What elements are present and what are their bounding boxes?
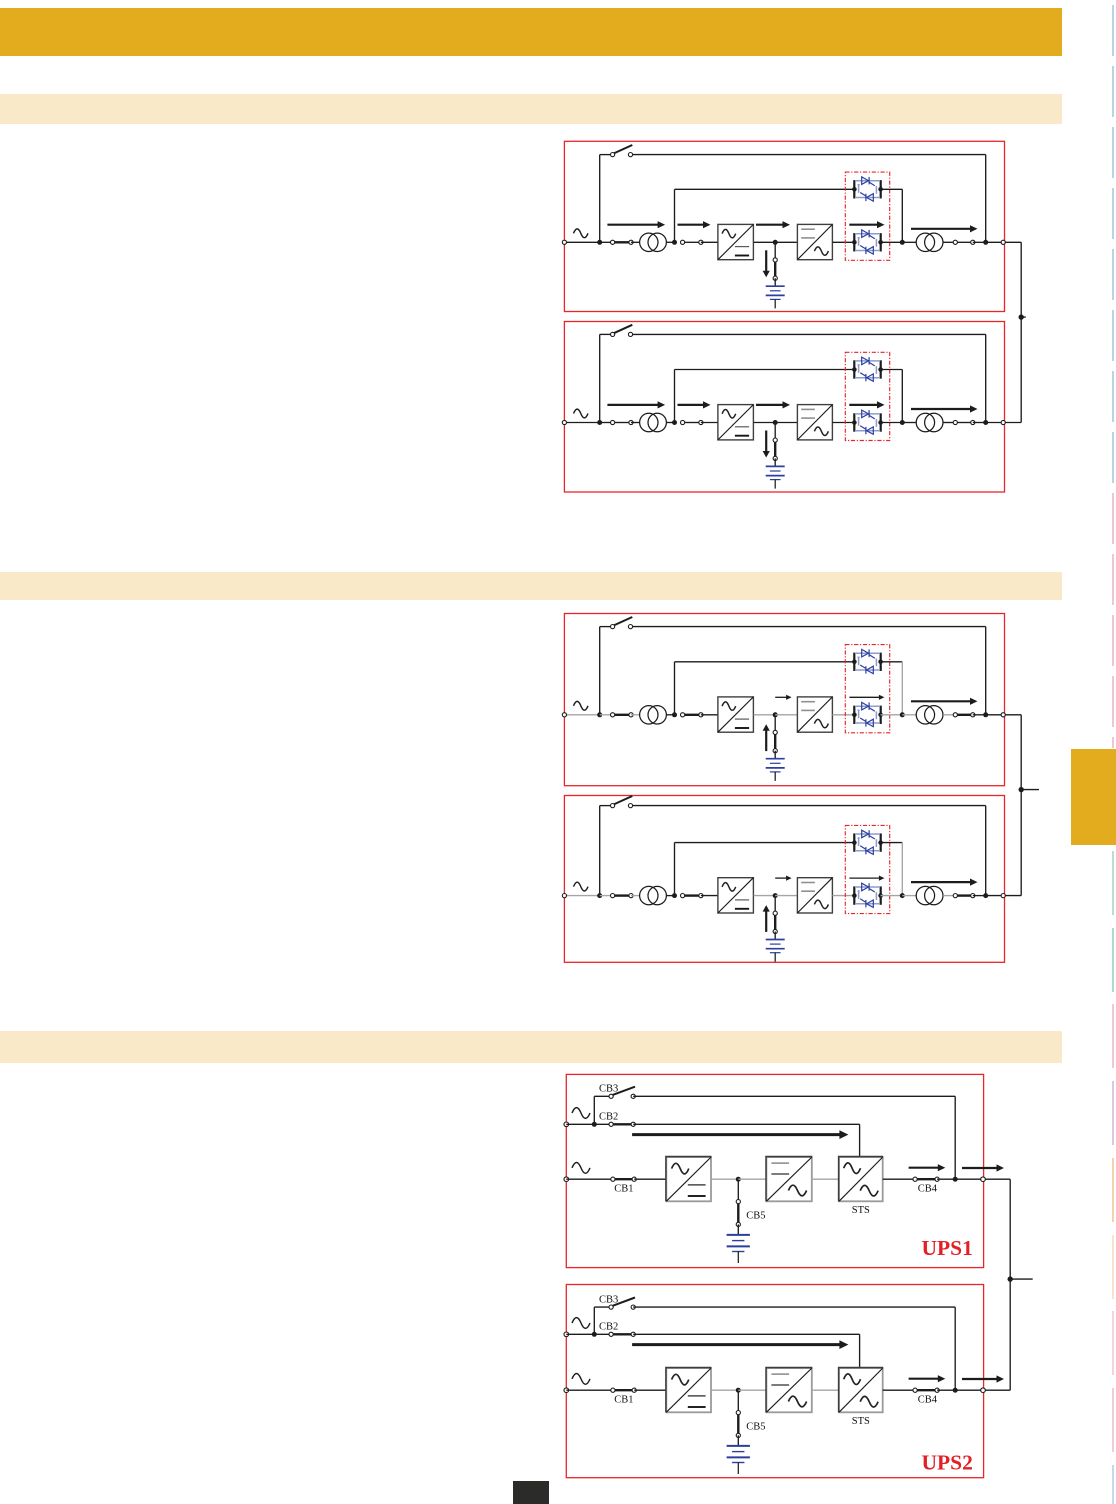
thyristor pair bypass-side SCR: [854, 357, 880, 381]
wire CB3 riser: [593, 1307, 595, 1334]
wire static-switch feed line: [675, 369, 855, 371]
switch output isolator Q3: [953, 713, 975, 717]
AC mains sine symbol: [574, 882, 589, 891]
svg-text:UPS1: UPS1: [922, 1236, 973, 1260]
wire bypass riser: [599, 334, 601, 422]
wire paralleling bus section 3: [1009, 1179, 1011, 1390]
wire output to paralleling bus: [1005, 422, 1021, 424]
terminal output on enclosure: [1001, 240, 1005, 244]
node thyristor top left: [852, 367, 857, 372]
wire transformer to node: [666, 422, 674, 424]
arrow battery charge flow (down): [763, 250, 770, 277]
node thyristor bottom right: [878, 713, 883, 718]
inverter DC/AC converter: [797, 405, 832, 440]
UPS1 enclosure box: [566, 1074, 983, 1267]
wire to rectifier: [701, 895, 718, 897]
switch bypass isolator (open): [611, 145, 633, 157]
switch output isolator Q3: [953, 420, 975, 424]
node thyristor top left: [852, 660, 857, 665]
node thyristor bottom left: [852, 713, 857, 718]
terminal output on enclosure: [1001, 713, 1005, 717]
UPS unit 3 enclosure box: [564, 614, 1004, 786]
svg-text:CB3: CB3: [599, 1295, 618, 1306]
AC bypass sine symbol: [572, 1318, 590, 1329]
wire inverter to STS: [812, 1178, 839, 1180]
node input junction: [597, 893, 602, 898]
wire static-switch feed riser: [674, 370, 676, 423]
wire load stub section 3: [1010, 1278, 1032, 1280]
arrow power flow DC link: [756, 401, 790, 408]
wire CB2 drop to STS: [859, 1124, 861, 1157]
wire bypass line: [631, 626, 986, 628]
AC mains source terminal: [564, 1177, 569, 1182]
UPS2 enclosure box: [566, 1285, 983, 1478]
wire static-switch feed riser: [674, 662, 676, 715]
node load takeoff section 1: [1019, 314, 1024, 319]
wire to output node: [973, 241, 986, 243]
node input junction: [597, 712, 602, 717]
wire thyristor top to elbow: [881, 188, 903, 190]
wire to rectifier: [701, 714, 718, 716]
wire battery node to inverter: [738, 1178, 766, 1180]
wire CB4 to output node: [937, 1178, 955, 1180]
arrow power flow to rectifier: [678, 221, 711, 228]
terminal output on enclosure: [1001, 894, 1005, 898]
wire riser to bypass switch: [600, 333, 613, 335]
wire bypass riser: [599, 806, 601, 896]
wire CB5 to battery: [737, 1435, 739, 1446]
node static switch output: [900, 712, 905, 717]
wire battery node to inverter: [775, 895, 797, 897]
node thyristor top right: [878, 840, 883, 845]
svg-text:CB5: CB5: [746, 1211, 765, 1222]
breaker CB2 (closed): [609, 1332, 635, 1336]
section heading band 3: [0, 1031, 1062, 1063]
wire input feeder: [564, 422, 599, 424]
wire node to input switch: [600, 895, 613, 897]
breaker CB5 battery (closed): [736, 1200, 740, 1227]
section heading band 1: [0, 94, 1062, 124]
wire to output node: [973, 422, 986, 424]
node static switch output: [900, 893, 905, 898]
inverter DC/AC converter: [797, 224, 832, 259]
wire node to input switch: [600, 422, 613, 424]
wire load stub section 1: [1021, 316, 1026, 318]
thyristor pair bypass-side SCR: [854, 177, 880, 201]
terminal output on enclosure: [981, 1388, 986, 1393]
wire output to paralleling bus: [1005, 714, 1021, 716]
arrow power flow output: [911, 698, 978, 705]
UPS unit 1 enclosure box: [564, 141, 1004, 311]
node UPS output: [983, 420, 988, 425]
breaker CB3 (open): [609, 1298, 635, 1310]
transformer output T2: [916, 886, 943, 904]
breaker CB2 (closed): [609, 1122, 635, 1126]
wire CB2 drop to STS: [859, 1334, 861, 1368]
thyristor pair inverter-side SCR: [854, 410, 880, 434]
wire inverter to STS: [812, 1389, 839, 1391]
wire thyristor top to elbow: [881, 842, 903, 844]
arrow power flow input: [607, 221, 665, 228]
svg-text:UPS2: UPS2: [922, 1450, 973, 1474]
wire load stub section 2: [1021, 789, 1039, 791]
wire switch to battery: [774, 751, 776, 759]
AC mains sine symbol: [574, 701, 589, 710]
wire CB2 static bypass line: [633, 1123, 859, 1125]
UPS unit 4 enclosure box: [564, 796, 1004, 963]
svg-text:STS: STS: [852, 1205, 870, 1216]
wire transformer to output switch: [943, 895, 955, 897]
rectifier AC/DC converter: [666, 1368, 712, 1413]
svg-text:CB1: CB1: [614, 1184, 633, 1195]
transformer input T1: [640, 233, 667, 251]
node battery tap: [773, 420, 778, 425]
wire elbow drop to output node: [901, 189, 903, 242]
wire thyristor bottom to node: [881, 241, 903, 243]
node bypass junction: [592, 1332, 597, 1337]
switch rectifier isolator Q2: [681, 894, 704, 898]
wire to rectifier: [701, 422, 718, 424]
wire node to input switch: [600, 714, 613, 716]
AC bypass source terminal: [564, 1122, 569, 1127]
side tab gold: [1071, 749, 1116, 845]
wire transformer to node: [666, 714, 674, 716]
terminal output on enclosure: [1001, 420, 1005, 424]
switch bypass isolator (open): [611, 617, 633, 629]
wire to input transformer: [631, 714, 640, 716]
wire battery branch: [737, 1179, 739, 1201]
switch input isolator Q1: [611, 420, 634, 424]
AC mains sine symbol: [572, 1374, 590, 1385]
wire rectifier to battery node: [754, 422, 776, 424]
node thyristor top right: [878, 187, 883, 192]
wire transformer to output switch: [943, 422, 955, 424]
svg-text:CB4: CB4: [918, 1184, 938, 1195]
AC mains source terminal: [562, 240, 566, 244]
wire output to paralleling bus: [985, 1389, 1010, 1391]
thyristor pair bypass-side SCR: [854, 649, 880, 673]
arrow bus power flow: [962, 1164, 1004, 1171]
wire inverter to static switch: [832, 714, 854, 716]
svg-text:STS: STS: [852, 1416, 870, 1427]
wire to output transformer: [902, 895, 916, 897]
switch battery isolator QF1: [773, 258, 777, 281]
section heading band 2: [0, 572, 1062, 600]
node input junction: [597, 240, 602, 245]
wire riser to bypass switch: [600, 626, 613, 628]
wire rectifier to battery node: [711, 1178, 738, 1180]
arrow power flow static switch: [849, 401, 884, 408]
wire bypass line: [631, 154, 986, 156]
switch battery isolator QF1: [773, 730, 777, 753]
wire CB2 static bypass line: [633, 1333, 859, 1335]
wire static-switch feed riser: [674, 843, 676, 896]
switch bypass isolator (open): [611, 796, 633, 808]
wire to input transformer: [631, 241, 640, 243]
arrow power flow DC link (thin): [775, 695, 791, 700]
svg-text:CB2: CB2: [599, 1112, 618, 1123]
node rectifier feed junction: [672, 893, 677, 898]
arrow power flow static switch (thin): [849, 695, 884, 700]
switch input isolator Q1: [611, 894, 634, 898]
static switch cabinet (dashed): [845, 352, 889, 440]
wire to output transformer: [902, 241, 916, 243]
node rectifier feed junction: [672, 240, 677, 245]
node rectifier feed junction: [672, 712, 677, 717]
node bypass junction: [592, 1122, 597, 1127]
node battery tap: [773, 240, 778, 245]
switch rectifier isolator Q2: [681, 420, 704, 424]
wire output to paralleling bus: [985, 1178, 1010, 1180]
arrow battery discharge flow (up): [763, 905, 770, 932]
switch input isolator Q1: [611, 713, 634, 717]
wire paralleling bus section 2: [1020, 715, 1022, 896]
arrow output power flow: [909, 1164, 946, 1171]
wire riser to bypass switch: [600, 154, 613, 156]
breaker CB4 (closed): [913, 1177, 939, 1181]
node static switch output: [900, 240, 905, 245]
wire mains feeder: [566, 1178, 613, 1180]
wire output to enclosure edge: [986, 422, 1004, 424]
arrow power flow to rectifier: [678, 401, 711, 408]
battery bank: [766, 940, 785, 962]
wire input feeder: [564, 714, 599, 716]
node thyristor top right: [878, 367, 883, 372]
node thyristor bottom right: [878, 893, 883, 898]
static switch cabinet (dashed): [845, 825, 889, 913]
svg-text:CB2: CB2: [599, 1322, 618, 1333]
arrow power flow static switch: [849, 221, 884, 228]
wire thyristor bottom to node: [881, 714, 903, 716]
node battery tap: [773, 893, 778, 898]
node UPS output: [953, 1388, 958, 1393]
AC mains source terminal: [564, 1388, 569, 1393]
node battery tap: [773, 712, 778, 717]
wire inverter to static switch: [832, 241, 854, 243]
arrow bus power flow: [962, 1375, 1004, 1382]
wire bypass riser: [599, 627, 601, 715]
static transfer switch STS: [839, 1368, 884, 1413]
wire output to enclosure edge: [986, 895, 1004, 897]
wire CB3 drop to output: [954, 1096, 956, 1179]
wire transformer to output switch: [943, 241, 955, 243]
svg-text:CB3: CB3: [599, 1084, 618, 1095]
node UPS output: [983, 893, 988, 898]
wire to rectifier: [701, 241, 718, 243]
arrow battery charge flow (down): [763, 431, 770, 458]
switch output isolator Q3: [953, 240, 975, 244]
wire output to enclosure edge: [986, 714, 1004, 716]
arrow power flow output: [911, 225, 978, 232]
arrow power flow DC link: [756, 221, 790, 228]
wire bypass riser: [599, 155, 601, 243]
arrow bypass power flow: [632, 1340, 848, 1349]
wire bypass drop to output: [985, 627, 987, 715]
arrow power flow input: [607, 401, 665, 408]
transformer input T1: [640, 413, 667, 431]
wire thyristor bottom to node: [881, 895, 903, 897]
arrow power flow output: [911, 879, 978, 886]
AC mains sine symbol: [572, 1163, 590, 1174]
AC mains source terminal: [562, 894, 566, 898]
wire CB4 to output node: [937, 1389, 955, 1391]
AC bypass sine symbol: [572, 1108, 590, 1119]
wire switch to battery: [774, 932, 776, 940]
wire CB1 to rectifier: [634, 1389, 666, 1391]
wire static-switch feed line: [675, 188, 855, 190]
breaker CB5 battery (closed): [736, 1411, 740, 1438]
wire bypass feeder: [566, 1123, 611, 1125]
wire battery node to inverter: [775, 422, 797, 424]
AC mains source terminal: [562, 713, 566, 717]
battery bank: [727, 1446, 750, 1474]
wire battery branch: [774, 242, 776, 260]
wire rectifier to battery node: [754, 241, 776, 243]
node thyristor top left: [852, 187, 857, 192]
terminal output on enclosure: [981, 1177, 986, 1182]
arrow output power flow: [909, 1375, 946, 1382]
wire output to enclosure edge: [955, 1389, 983, 1391]
switch bypass isolator (open): [611, 325, 633, 337]
wire rectifier to battery node: [754, 714, 776, 716]
AC mains sine symbol: [574, 409, 589, 418]
wire input feeder: [564, 895, 599, 897]
thyristor pair inverter-side SCR: [854, 230, 880, 254]
wire rectifier to battery node: [711, 1389, 738, 1391]
node static switch output: [900, 420, 905, 425]
wire CB3 drop to output: [954, 1307, 956, 1390]
wire elbow drop to output node: [901, 662, 903, 715]
wire inverter to static switch: [832, 422, 854, 424]
node UPS output: [953, 1177, 958, 1182]
node thyristor bottom right: [878, 420, 883, 425]
switch battery isolator QF1: [773, 911, 777, 934]
rectifier AC/DC converter: [718, 224, 754, 259]
wire elbow drop to output node: [901, 370, 903, 423]
wire to output transformer: [902, 714, 916, 716]
wire bypass drop to output: [985, 155, 987, 243]
static switch cabinet (dashed): [845, 172, 889, 260]
battery bank: [766, 286, 785, 308]
wire CB5 to battery: [737, 1224, 739, 1235]
node load takeoff section 3: [1008, 1276, 1013, 1281]
node battery tap: [736, 1177, 741, 1182]
inverter DC/AC converter: [797, 878, 832, 913]
wire to output node: [973, 895, 986, 897]
arrow power flow static switch (thin): [849, 876, 884, 881]
arrow power flow output: [911, 405, 978, 412]
wire paralleling bus section 1: [1020, 242, 1022, 422]
svg-text:CB5: CB5: [746, 1422, 765, 1433]
wire bypass line: [631, 333, 986, 335]
static switch cabinet (dashed): [845, 645, 889, 733]
wire to input transformer: [631, 422, 640, 424]
node battery tap: [736, 1388, 741, 1393]
wire output to enclosure edge: [986, 241, 1004, 243]
wire bypass drop to output: [985, 806, 987, 896]
inverter DC/AC converter: [797, 697, 832, 732]
svg-text:CB4: CB4: [918, 1395, 938, 1406]
wire output to enclosure edge: [955, 1178, 983, 1180]
wire battery branch: [774, 715, 776, 733]
node input junction: [597, 420, 602, 425]
wire output to paralleling bus: [1005, 895, 1021, 897]
wire static-switch feed line: [675, 842, 855, 844]
wire battery node to inverter: [775, 241, 797, 243]
wire battery branch: [774, 423, 776, 441]
node thyristor top left: [852, 840, 857, 845]
wire riser to CB3: [594, 1306, 611, 1308]
wire thyristor top to elbow: [881, 369, 903, 371]
thyristor pair inverter-side SCR: [854, 883, 880, 907]
wire CB3 maintenance bypass line: [633, 1095, 955, 1097]
wire CB3 riser: [593, 1096, 595, 1124]
thyristor pair inverter-side SCR: [854, 702, 880, 726]
wire to output node: [973, 714, 986, 716]
wire transformer to node: [666, 241, 674, 243]
arrow power flow DC link (thin): [775, 876, 791, 881]
transformer output T2: [916, 233, 943, 251]
AC mains sine symbol: [574, 229, 589, 238]
battery bank: [766, 466, 785, 488]
header band gold: [0, 8, 1062, 56]
breaker CB1 (closed): [611, 1177, 637, 1181]
switch input isolator Q1: [611, 240, 634, 244]
wire elbow drop to output node: [901, 843, 903, 896]
node UPS output: [983, 712, 988, 717]
wire to output transformer: [902, 422, 916, 424]
wire switch to battery: [774, 458, 776, 466]
wire CB3 maintenance bypass line: [633, 1306, 955, 1308]
transformer output T2: [916, 706, 943, 724]
node load takeoff section 2: [1019, 787, 1024, 792]
switch output isolator Q3: [953, 894, 975, 898]
wire CB1 to rectifier: [634, 1178, 666, 1180]
wire battery branch: [774, 896, 776, 914]
breaker CB4 (closed): [913, 1388, 939, 1392]
wire input feeder: [564, 241, 599, 243]
wire thyristor top to elbow: [881, 661, 903, 663]
rectifier AC/DC converter: [718, 878, 754, 913]
rectifier AC/DC converter: [718, 405, 754, 440]
page number block: [513, 1481, 549, 1504]
rectifier AC/DC converter: [718, 697, 754, 732]
wire riser to bypass switch: [600, 805, 613, 807]
wire battery node to inverter: [738, 1389, 766, 1391]
node UPS output: [983, 240, 988, 245]
transformer input T1: [640, 886, 667, 904]
wire mains feeder: [566, 1389, 613, 1391]
wire bypass line: [631, 805, 986, 807]
thyristor pair bypass-side SCR: [854, 830, 880, 854]
wire output to paralleling bus: [1005, 241, 1021, 243]
wire battery branch: [737, 1390, 739, 1412]
wire transformer to node: [666, 895, 674, 897]
wire bypass feeder: [566, 1333, 611, 1335]
arrow battery discharge flow (up): [763, 724, 770, 751]
wire rectifier to battery node: [754, 895, 776, 897]
AC mains source terminal: [562, 420, 566, 424]
node thyristor bottom left: [852, 240, 857, 245]
wire to input transformer: [631, 895, 640, 897]
wire STS to CB4: [883, 1178, 915, 1180]
node thyristor top right: [878, 660, 883, 665]
node thyristor bottom left: [852, 893, 857, 898]
breaker CB3 (open): [609, 1087, 635, 1099]
wire transformer to output switch: [943, 714, 955, 716]
wire riser to CB3: [594, 1095, 611, 1097]
inverter DC/AC converter: [766, 1157, 812, 1202]
